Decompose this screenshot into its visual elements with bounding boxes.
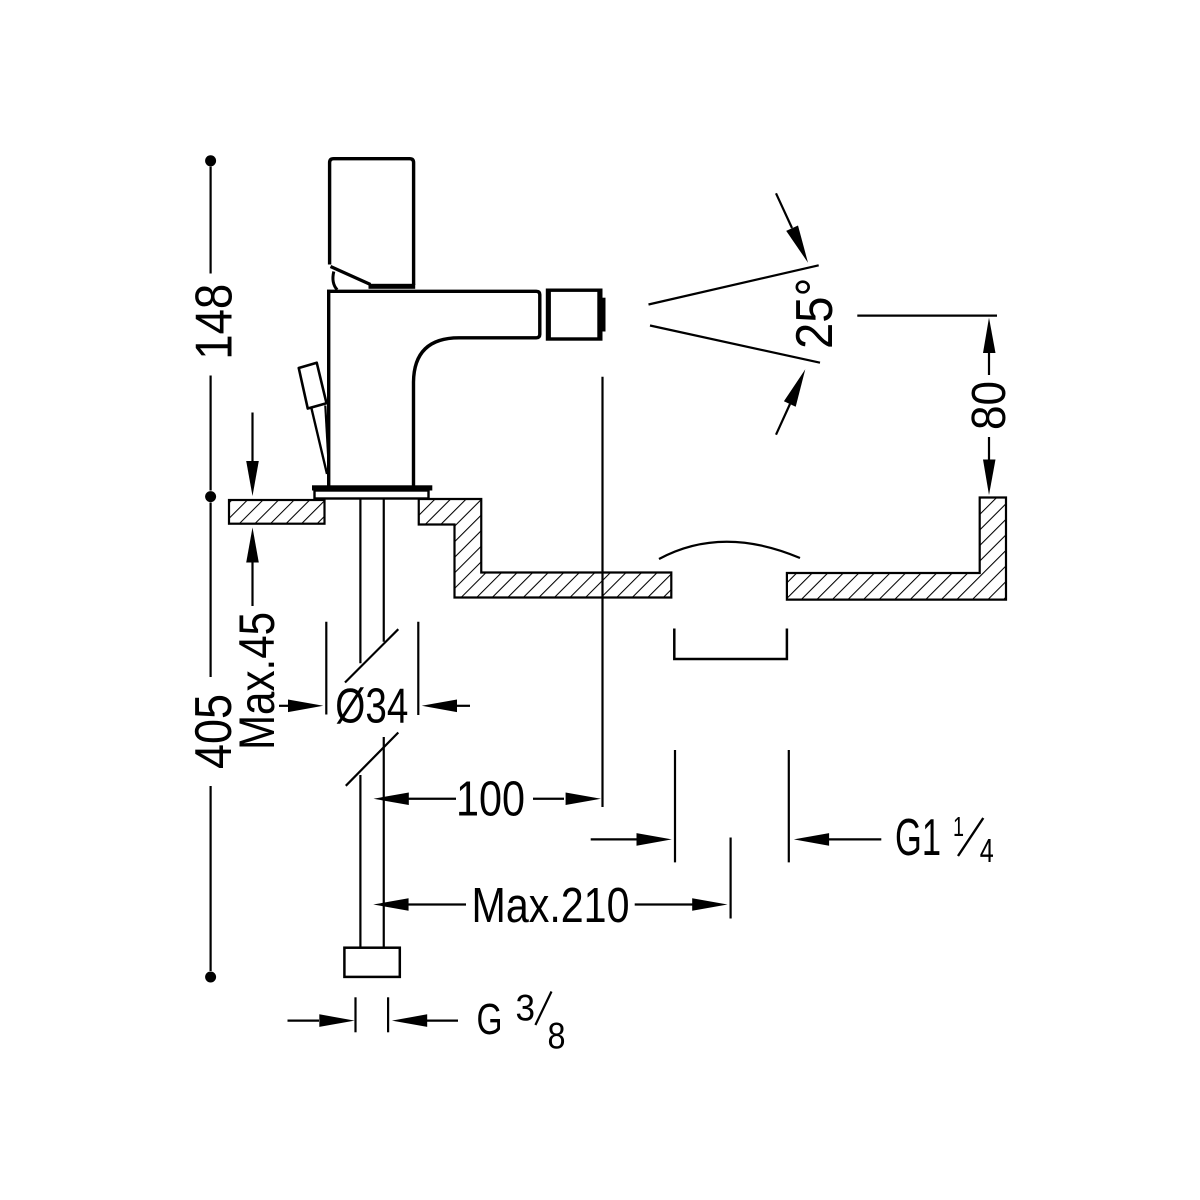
svg-text:148: 148	[185, 284, 243, 360]
svg-text:Max.210: Max.210	[472, 878, 630, 933]
svg-text:8: 8	[548, 1015, 566, 1056]
svg-text:80: 80	[963, 381, 1016, 430]
svg-text:G1: G1	[895, 808, 941, 866]
svg-text:Ø34: Ø34	[335, 680, 408, 734]
svg-text:100: 100	[456, 773, 525, 827]
svg-text:25°: 25°	[786, 278, 844, 350]
svg-text:G: G	[477, 996, 503, 1044]
svg-text:3: 3	[516, 988, 536, 1029]
svg-text:1: 1	[953, 811, 964, 842]
svg-text:4: 4	[980, 832, 994, 869]
svg-text:Max.45: Max.45	[229, 612, 285, 750]
